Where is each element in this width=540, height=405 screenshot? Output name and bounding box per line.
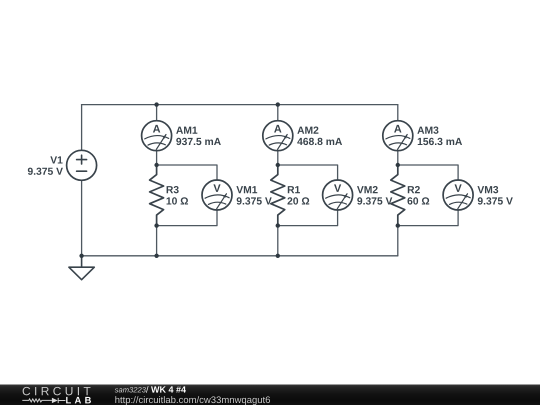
- label V1 name: [50, 156, 62, 163]
- label R3 value: [167, 197, 189, 204]
- ammeter AM2: [263, 121, 293, 151]
- voltmeter VM1: [202, 180, 232, 210]
- ammeter AM1: [142, 121, 172, 151]
- node A1: [154, 163, 158, 167]
- logo diode triangle: [52, 398, 58, 403]
- wire branch 2 ammeter to node A2: [277, 151, 279, 166]
- node A2: [276, 163, 280, 167]
- node A3: [396, 163, 400, 167]
- wire branch 3 node B3 to bottom rail: [397, 226, 399, 256]
- label VM2 value: [357, 197, 392, 204]
- label V1 value: [28, 168, 63, 175]
- meter letter AM3: [394, 125, 401, 133]
- label VM2 name: [357, 186, 378, 193]
- voltmeter VM3: [443, 180, 473, 210]
- junction dots: [79, 102, 400, 258]
- voltmeter VM2: [323, 180, 353, 210]
- wire branch 3 ammeter to node A3: [397, 151, 399, 166]
- node top rail B2: [276, 102, 280, 106]
- wire top rail: [82, 104, 398, 106]
- label VM1 name: [236, 186, 257, 193]
- label R2 value: [407, 197, 429, 204]
- node bottom rail B1: [154, 254, 158, 258]
- meter letter VM2: [334, 184, 341, 192]
- footer url: [115, 396, 270, 405]
- wire VM3 loop: [398, 165, 458, 226]
- wire branch 3 ammeter top: [397, 105, 399, 121]
- label R3 name: [167, 186, 179, 193]
- node bottom rail B2: [276, 254, 280, 258]
- resistor R3: [150, 165, 164, 226]
- logo LAB: [66, 397, 91, 403]
- logo resistor-diode glyph: [22, 398, 65, 403]
- wire branch 1 node B1 to bottom rail: [156, 226, 158, 256]
- logo wordmark CIRCUIT: [23, 387, 91, 396]
- node top rail B1: [154, 102, 158, 106]
- wire V1 bottom lead: [81, 180, 83, 255]
- wire branch 1 ammeter to node A1: [156, 151, 158, 166]
- label AM2 name: [297, 127, 318, 134]
- voltage source V1: [67, 150, 97, 180]
- label R1 value: [287, 197, 309, 204]
- resistor R2: [391, 165, 405, 226]
- label AM1 value: [176, 138, 221, 145]
- label AM3 value: [418, 138, 462, 145]
- label AM3 name: [417, 127, 438, 134]
- wire branch 2 ammeter top: [277, 105, 279, 121]
- wire branch 1 ammeter top: [156, 105, 158, 121]
- node B2 bottom: [276, 223, 280, 227]
- footer slash: [146, 386, 149, 393]
- wire VM2 loop: [278, 165, 338, 226]
- label VM1 value: [237, 197, 272, 204]
- meter letter VM1: [213, 184, 220, 192]
- meter letter VM3: [455, 184, 462, 192]
- label VM3 name: [477, 186, 498, 193]
- meter letter AM2: [274, 125, 281, 133]
- label AM2 value: [297, 138, 342, 145]
- label R1 name: [288, 186, 300, 193]
- resistor R1: [271, 165, 285, 226]
- label VM3 value: [478, 197, 513, 204]
- node B1 bottom: [154, 223, 158, 227]
- meter letter AM1: [153, 125, 160, 133]
- ammeter AM3: [383, 121, 413, 151]
- wire branch 2 node B2 to bottom rail: [277, 226, 279, 256]
- wire bottom rail: [82, 255, 398, 257]
- wire VM1 loop: [157, 165, 217, 226]
- label R2 name: [408, 186, 420, 193]
- wire V1 top lead: [81, 105, 83, 151]
- footer title: [151, 386, 186, 392]
- ground: [69, 256, 94, 280]
- node B3 bottom: [396, 223, 400, 227]
- footer username: [115, 387, 146, 392]
- label AM1 name: [176, 127, 197, 134]
- node ground rail: [79, 254, 83, 258]
